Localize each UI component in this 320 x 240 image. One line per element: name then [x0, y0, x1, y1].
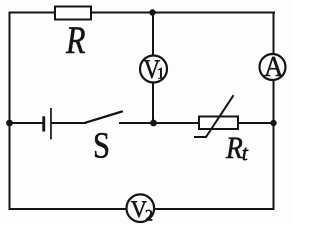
svg-text:S: S: [93, 125, 110, 166]
svg-text:2: 2: [145, 207, 153, 224]
svg-text:R: R: [65, 19, 85, 62]
svg-text:t: t: [242, 140, 249, 165]
svg-text:A: A: [264, 51, 283, 83]
svg-text:R: R: [225, 130, 243, 165]
svg-text:1: 1: [157, 65, 165, 82]
